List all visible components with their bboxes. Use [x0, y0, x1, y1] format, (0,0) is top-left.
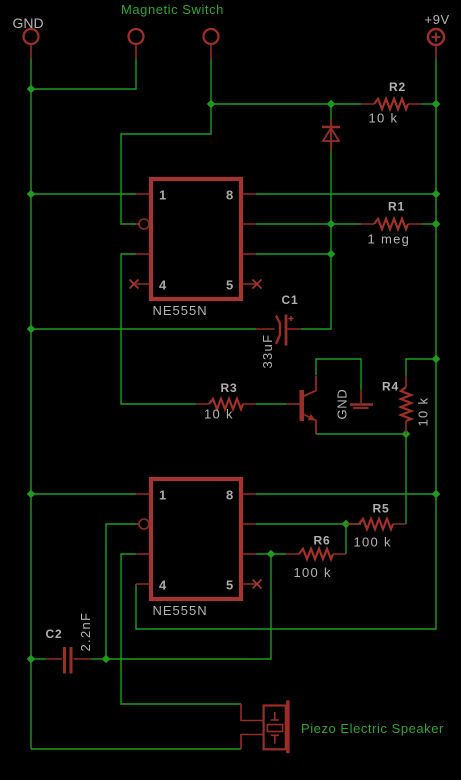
svg-text:8: 8 — [226, 488, 233, 503]
svg-text:R4: R4 — [382, 380, 399, 394]
svg-text:5: 5 — [226, 278, 233, 293]
svg-text:2.2nF: 2.2nF — [78, 612, 93, 652]
node junction switch2/top rail — [207, 100, 216, 109]
svg-text:10 k: 10 k — [369, 111, 399, 126]
pin U2 trigger bubble — [136, 523, 139, 525]
node junction GND/C1 — [27, 325, 36, 334]
svg-text:4: 4 — [159, 578, 167, 593]
pin Magnetic Switch terminal 2 — [204, 29, 219, 44]
wire R5 left junction down to R6 right — [345, 524, 347, 554]
pin leads U1 left — [136, 194, 150, 284]
resistor R3 10k horizontal — [196, 403, 256, 405]
wire R2 right to V+ rail — [421, 103, 436, 105]
node junction GND/IC1 pin1 — [27, 190, 36, 199]
svg-text:NE555N: NE555N — [153, 303, 208, 318]
svg-text:100 k: 100 k — [294, 565, 332, 580]
svg-text:5: 5 — [226, 578, 233, 593]
ground symbol GND at transistor collector loop — [360, 390, 362, 404]
op-amp U1 NE555N timer IC body — [151, 179, 241, 299]
wire R3 right to transistor base — [256, 403, 286, 405]
wire C2 right lead to junction — [91, 658, 106, 660]
wire IC1 pin8 to V+ rail — [256, 193, 436, 195]
wire IC2 pin7 to R5 left junction — [256, 523, 361, 525]
node junction V+/IC1 pin8 — [432, 190, 441, 199]
svg-text:33uF: 33uF — [260, 334, 275, 369]
svg-text:+9V: +9V — [425, 12, 450, 27]
svg-text:1 meg: 1 meg — [368, 232, 411, 247]
wire GND rail from GND pin down left side to bottom — [30, 59, 32, 749]
pin Magnetic Switch terminal 1 — [129, 29, 144, 44]
power pin +9V terminal — [428, 29, 444, 45]
speaker SP1 piezo element — [241, 704, 263, 721]
svg-text:10 k: 10 k — [416, 397, 431, 427]
wire IC1 pin7 to R1 left — [256, 223, 361, 225]
pin leads U1 right — [242, 194, 256, 284]
wire GND rail to IC2 pin1 — [31, 493, 136, 495]
resistor R4 10k vertical — [405, 376, 407, 435]
node junction V+/top rail — [432, 100, 441, 109]
wire IC2 pin3 down to piezo top pin — [121, 554, 241, 704]
wire switch pin2 stem down — [210, 59, 212, 104]
node junction C2 right — [102, 655, 111, 664]
wire switch pin1 to GND rail — [31, 59, 136, 89]
node junction V+/R4 feed — [432, 355, 441, 364]
pin leads U2 left — [136, 494, 150, 584]
svg-text:1: 1 — [159, 488, 166, 503]
svg-text:10 k: 10 k — [204, 407, 234, 422]
wire IC2 trigger bubble to C2 right column — [106, 524, 139, 659]
wire bottom GND run to piezo bottom pin — [31, 748, 241, 750]
wire V+ rail to R4 top — [406, 359, 436, 376]
no-connect X at U2 pin5 — [253, 580, 262, 589]
wire R4 bottom down to R5 right — [405, 434, 407, 524]
node junction GND/switch1 — [27, 85, 36, 94]
node junction V+/IC2 pin8 — [432, 490, 441, 499]
wire IC2 pin8 to V+ rail — [256, 493, 436, 495]
resistor R6 100k horizontal — [286, 553, 346, 555]
ground pin GND terminal circle top-left — [24, 29, 39, 44]
wire R1 right to V+ rail — [421, 223, 436, 225]
wire GND rail to C2 left — [31, 658, 46, 660]
svg-text:C1: C1 — [282, 293, 299, 307]
wire emitter to R4 bottom — [316, 433, 406, 435]
svg-text:Magnetic Switch: Magnetic Switch — [121, 2, 224, 17]
wire IC1 pin3 column down to R3 left — [121, 254, 196, 404]
resistor R1 1meg horizontal — [361, 223, 421, 225]
svg-text:R5: R5 — [373, 502, 390, 516]
capacitor C1 33uF polarized horizontal — [256, 328, 301, 330]
wire R6 junction down then left to C2 right junction — [106, 554, 271, 659]
wire GND rail to IC1 pin1 — [31, 193, 136, 195]
wire C1 left to GND rail — [31, 328, 256, 330]
wire diode column down to C1 right — [301, 150, 331, 329]
svg-text:R3: R3 — [221, 381, 238, 395]
no-connect X at U1 pin5 — [253, 280, 262, 289]
transistor Q1 NPN — [300, 390, 305, 421]
op-amp U2 NE555N timer IC body — [151, 479, 241, 599]
svg-text:GND: GND — [335, 389, 350, 420]
node junction diode/top rail — [327, 100, 336, 109]
no-connect X at U1 pin4 — [130, 280, 139, 289]
wire V+ rail down right side then left to chip2 pin4 — [136, 59, 436, 629]
node junction emitter/R4 bottom — [402, 430, 411, 439]
svg-text:R1: R1 — [388, 200, 405, 214]
resistor R2 10k horizontal — [361, 103, 421, 105]
svg-text:1: 1 — [159, 188, 166, 203]
wire IC2 pin6 to R6 left — [256, 553, 286, 555]
svg-text:8: 8 — [226, 188, 233, 203]
svg-text:4: 4 — [159, 278, 167, 293]
resistor R5 100k horizontal — [346, 523, 406, 525]
pin U1 trigger bubble — [136, 223, 139, 225]
svg-text:R6: R6 — [314, 534, 331, 548]
svg-text:100 k: 100 k — [354, 535, 392, 550]
svg-text:NE555N: NE555N — [153, 603, 208, 618]
svg-text:R2: R2 — [389, 80, 406, 94]
node junction GND/IC2 pin1 — [27, 490, 36, 499]
wire IC1 pin6 to diode column — [256, 253, 331, 255]
diode D1 vertical cathode-up — [330, 119, 332, 151]
node junction GND/C2 left — [27, 655, 36, 664]
svg-text:C2: C2 — [46, 627, 63, 641]
wire diode top to y104 junction — [330, 104, 332, 119]
wire from y104 junction down-left to IC1 trigger bubble — [121, 104, 211, 224]
node junction R6 left — [267, 550, 276, 559]
node junction V+/R1 right — [432, 220, 441, 229]
svg-text:GND: GND — [13, 15, 44, 31]
node junction diode column/IC1 pin6 — [327, 250, 336, 259]
capacitor C2 2.2nF horizontal — [46, 658, 91, 660]
pin leads U2 right — [242, 494, 256, 584]
node junction R5 left — [342, 520, 351, 529]
wire transistor collector loop to GND symbol — [316, 359, 361, 390]
node junction diode column/R1 left — [327, 220, 336, 229]
svg-text:Piezo Electric Speaker: Piezo Electric Speaker — [301, 721, 444, 736]
wire top rail y104 to R2 left — [211, 103, 361, 105]
